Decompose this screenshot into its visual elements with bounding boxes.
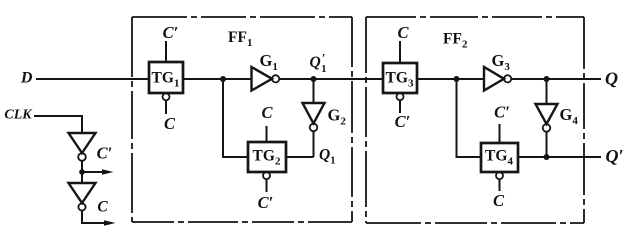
wire: C tap arrow bbox=[82, 211, 107, 223]
svg-text:Q1: Q1 bbox=[319, 147, 335, 167]
wire: G4 output down to Q' line bbox=[546, 132, 548, 157]
wire: TG3 output to G3 bbox=[417, 78, 484, 80]
svg-text:FF2: FF2 bbox=[443, 31, 468, 51]
svg-text:Q′: Q′ bbox=[605, 146, 623, 166]
TG1 bottom bubble bbox=[163, 93, 170, 100]
wire: I1 output down to I2 bbox=[81, 161, 83, 183]
wire: TG4 C' control top bbox=[499, 124, 501, 143]
node: C' tap junction bbox=[79, 169, 85, 175]
wire: feedback down-left of FF1 bbox=[223, 79, 248, 157]
inverter G2 bbox=[303, 103, 325, 124]
node Q' bbox=[544, 154, 550, 160]
FF1 dash-dot enclosure box bbox=[132, 17, 352, 222]
svg-text:G4: G4 bbox=[560, 105, 579, 127]
transmission gate TG3 bbox=[383, 63, 417, 93]
svg-text:G3: G3 bbox=[492, 51, 511, 73]
svg-text:FF1: FF1 bbox=[228, 29, 252, 49]
wire: feedback down-left of FF2 bbox=[457, 79, 482, 157]
svg-text:C′: C′ bbox=[97, 143, 113, 162]
TG4 bottom bubble bbox=[496, 172, 503, 179]
wire: CLK to inverter I1 bbox=[34, 116, 82, 133]
svg-text:G2: G2 bbox=[328, 106, 347, 128]
wire: G1 output to TG3 (through Q1' node) bbox=[279, 78, 383, 80]
wire: TG4 C control bottom bbox=[499, 179, 501, 191]
transmission gate TG4 bbox=[481, 143, 518, 172]
inverter I2 (C' to C) bbox=[69, 183, 96, 203]
inverter G3 bbox=[484, 67, 504, 91]
svg-text:C: C bbox=[97, 199, 108, 216]
wire: TG2 C control top bbox=[266, 126, 268, 142]
FF2 dash-dot enclosure box bbox=[366, 17, 584, 223]
svg-text:C: C bbox=[261, 103, 273, 122]
wire: TG4 output to Q' output bbox=[518, 156, 601, 158]
svg-text:TG2: TG2 bbox=[253, 148, 281, 168]
svg-text:C′: C′ bbox=[258, 193, 274, 212]
svg-text:C′: C′ bbox=[494, 103, 510, 122]
svg-text:G1: G1 bbox=[260, 51, 278, 73]
inverter G4 bbox=[536, 104, 558, 124]
transmission gate TG1 bbox=[149, 62, 183, 93]
wire: TG3 C' control bottom bbox=[399, 100, 401, 113]
wire: Q1' node down to G2 input bbox=[313, 79, 315, 103]
svg-text:TG3: TG3 bbox=[386, 70, 414, 90]
svg-text:TG1: TG1 bbox=[152, 70, 180, 90]
svg-text:C: C bbox=[397, 23, 409, 42]
wire: TG1 C' control top bbox=[165, 41, 167, 62]
svg-text:Q: Q bbox=[605, 68, 618, 88]
wire: G3 output to Q (through Q node) bbox=[511, 78, 601, 80]
wire: TG1 C control bottom bbox=[165, 100, 167, 114]
svg-text:C: C bbox=[493, 191, 505, 210]
svg-text:CLK: CLK bbox=[4, 107, 33, 122]
wire: D input to TG1 bbox=[36, 78, 149, 80]
wire: TG3 C control top bbox=[399, 41, 401, 63]
node Q1' bbox=[311, 76, 317, 82]
wire: TG1 output to G1 bbox=[183, 78, 252, 80]
svg-text:Q′1: Q′1 bbox=[310, 52, 327, 76]
wire: C' tap arrow bbox=[82, 171, 105, 173]
wire: Q node down to G4 input bbox=[546, 79, 548, 104]
transmission gate TG2 bbox=[248, 142, 286, 172]
node: slave feedback junction bbox=[454, 76, 460, 82]
svg-text:C′: C′ bbox=[395, 112, 411, 131]
svg-text:C′: C′ bbox=[163, 23, 179, 42]
node Q bbox=[544, 76, 550, 82]
wire: G2 output down to Q1 line bbox=[313, 131, 315, 157]
svg-text:D: D bbox=[20, 70, 33, 87]
inverter G1 bbox=[252, 67, 273, 91]
TG2 bottom bubble bbox=[263, 172, 270, 179]
svg-text:TG4: TG4 bbox=[485, 148, 513, 168]
node: master feedback junction bbox=[220, 76, 226, 82]
inverter I1 (CLK to C') bbox=[69, 133, 96, 153]
wire: TG2 C' control bottom bbox=[266, 179, 268, 192]
TG3 bottom bubble bbox=[397, 93, 404, 100]
wire: TG2 output to G2 output corner bbox=[286, 156, 314, 158]
svg-text:C: C bbox=[164, 114, 176, 133]
